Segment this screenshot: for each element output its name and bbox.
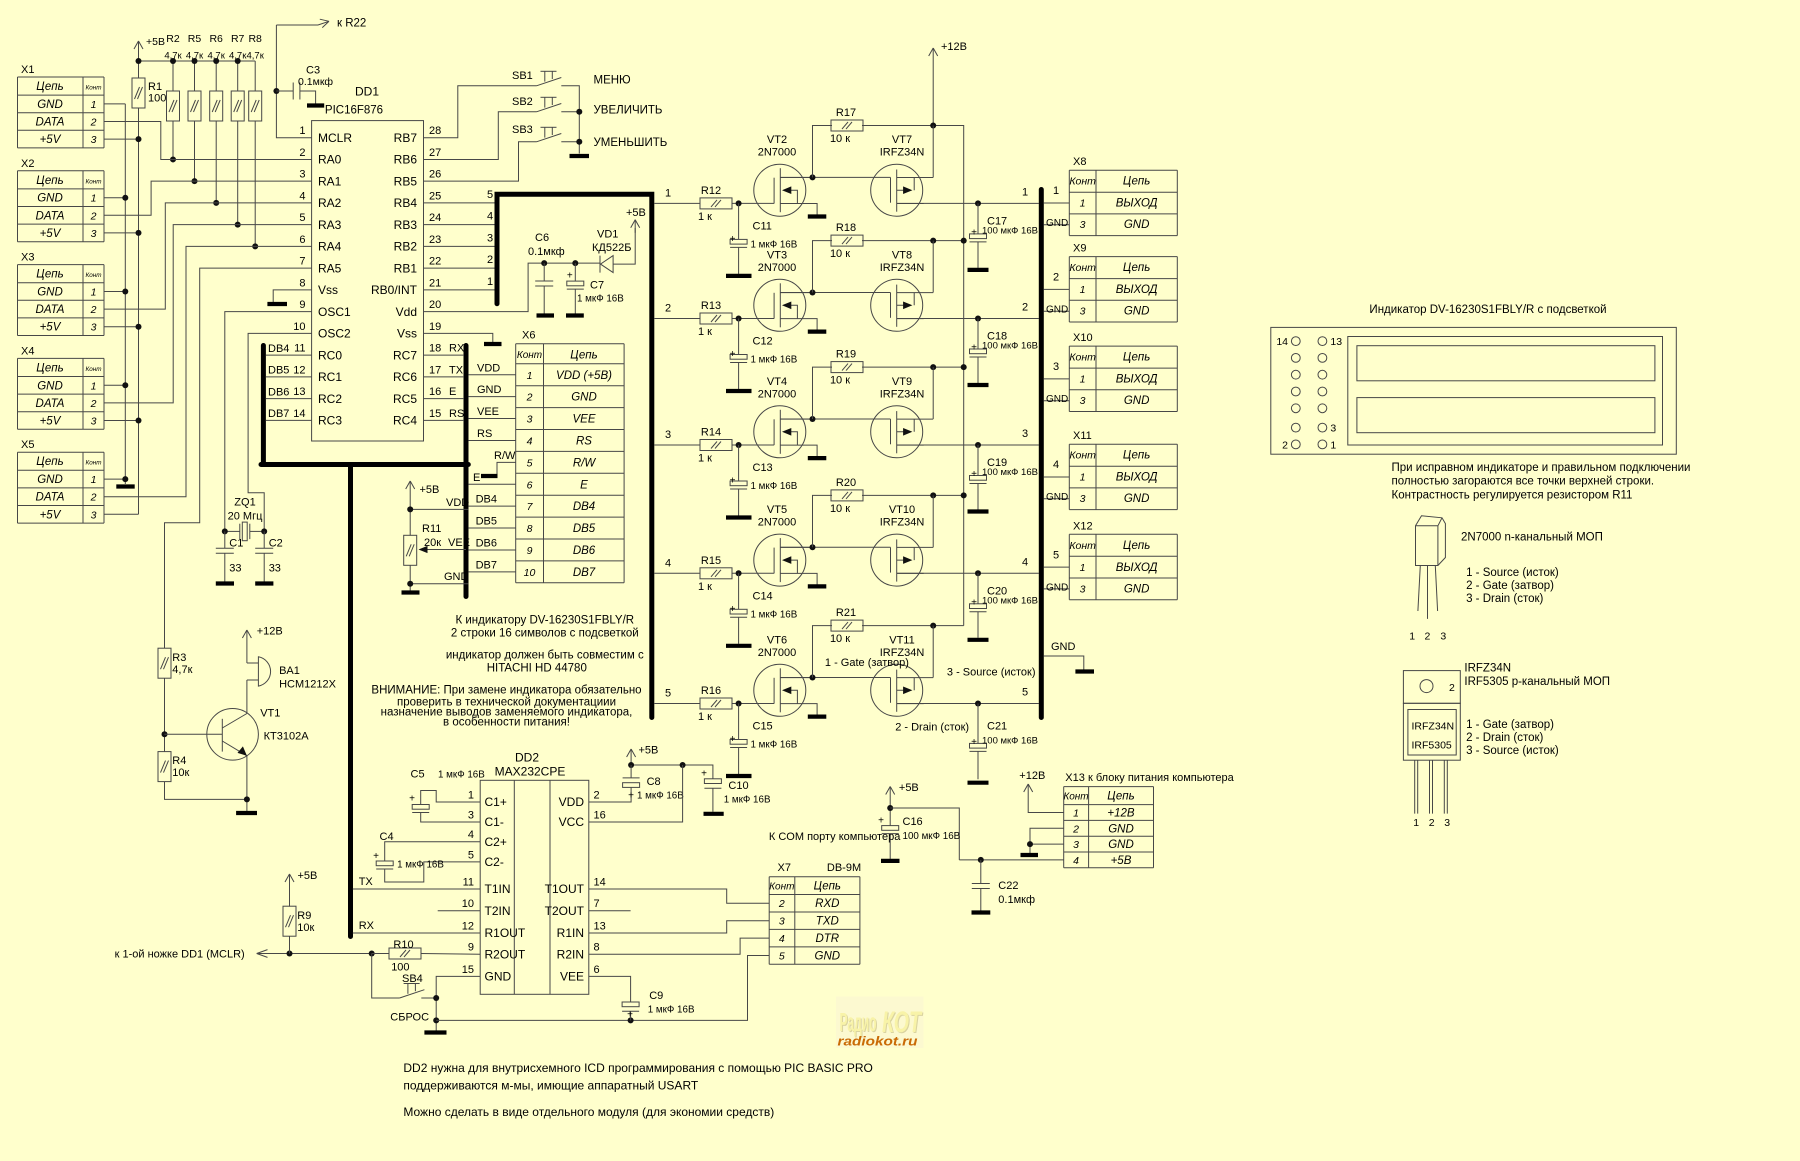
svg-text:9: 9 — [468, 942, 474, 954]
svg-text:DB-9M: DB-9M — [827, 862, 861, 874]
ground for C18 — [968, 383, 989, 387]
svg-text:R10: R10 — [393, 939, 413, 951]
transistor VT7 IRFZ34N — [871, 164, 934, 216]
svg-text:DB6: DB6 — [268, 386, 289, 398]
wire: MCLR net vertical to DD1 pin 1 — [276, 25, 311, 138]
svg-text:GND: GND — [37, 287, 63, 299]
svg-text:GND: GND — [1124, 306, 1150, 318]
svg-text:2 - Drain (сток): 2 - Drain (сток) — [895, 722, 969, 734]
svg-text:11: 11 — [294, 343, 305, 355]
svg-text:GND: GND — [1046, 492, 1068, 503]
svg-text:C9: C9 — [649, 990, 663, 1002]
svg-text:1 - Gate (затвор): 1 - Gate (затвор) — [1466, 719, 1554, 731]
svg-text:2N7000 n-канальный МОП: 2N7000 n-канальный МОП — [1461, 532, 1603, 544]
svg-text:E: E — [449, 386, 456, 398]
svg-text:Конт: Конт — [86, 366, 102, 373]
svg-text:C21: C21 — [987, 721, 1007, 733]
svg-text:GND: GND — [477, 384, 502, 396]
svg-text:2: 2 — [1022, 302, 1028, 314]
wire: DD1 pin 27 to SB2 — [424, 112, 537, 160]
svg-text:R18: R18 — [836, 222, 856, 234]
svg-text:R2IN: R2IN — [557, 947, 584, 961]
resistor R13 1 к — [700, 313, 732, 324]
svg-text:C2+: C2+ — [485, 835, 507, 849]
svg-text:Конт: Конт — [1069, 352, 1096, 364]
svg-text:RC6: RC6 — [393, 370, 417, 384]
power +5B arrow near C16 — [889, 787, 891, 801]
svg-text:T1IN: T1IN — [485, 882, 511, 896]
svg-text:R16: R16 — [701, 685, 721, 697]
svg-text:2: 2 — [1053, 272, 1059, 284]
wire: VT11 drain to output bus (signal 5) — [897, 703, 1039, 705]
svg-text:1: 1 — [1413, 817, 1419, 829]
ground for C20 — [968, 638, 989, 642]
svg-text:100: 100 — [391, 962, 409, 974]
capacitor C10 1 мкФ 16В — [704, 779, 721, 784]
svg-text:10 к: 10 к — [830, 375, 850, 387]
svg-text:+: + — [409, 794, 415, 805]
svg-text:DTR: DTR — [815, 933, 839, 945]
svg-text:0.1мкф: 0.1мкф — [298, 76, 333, 88]
wire: bundle to X6 row 2 (GND) — [468, 396, 515, 398]
power +5B arrow above C8 — [630, 749, 632, 763]
svg-text:1: 1 — [91, 380, 97, 392]
svg-text:1: 1 — [468, 790, 474, 802]
svg-text:+: + — [730, 476, 736, 487]
svg-text:+: + — [730, 234, 736, 245]
svg-text:R20: R20 — [836, 477, 856, 489]
resistor R4 10к — [158, 752, 171, 782]
svg-text:IRFZ34N: IRFZ34N — [880, 262, 925, 274]
svg-text:Конт: Конт — [517, 350, 542, 361]
power +5B arrow above R9 — [289, 874, 291, 889]
capacitor C19 100 мкФ 16В (output) — [977, 445, 979, 476]
svg-text:10к: 10к — [172, 767, 189, 779]
svg-text:1 - Gate (затвор): 1 - Gate (затвор) — [825, 657, 909, 669]
svg-text:VDD: VDD — [559, 795, 585, 809]
wire: VT1 emitter to ground — [246, 756, 248, 811]
svg-text:+5V: +5V — [40, 416, 62, 428]
svg-text:R4: R4 — [172, 755, 186, 767]
svg-text:Цепь: Цепь — [36, 175, 63, 187]
wire: X3 GND pin to GND bus — [104, 291, 125, 293]
svg-text:RX: RX — [359, 920, 375, 932]
svg-text:C1-: C1- — [485, 815, 504, 829]
wire: DD1 pin 18 (RX) to bundle — [424, 354, 465, 356]
ground for X13 — [1021, 853, 1039, 857]
ground for pin 19 — [484, 342, 502, 346]
transistor VT5 2N7000 — [754, 534, 827, 586]
svg-text:4,7к: 4,7к — [172, 664, 192, 676]
wire: VT6 drain to VT11 gate — [780, 677, 890, 679]
svg-text:МЕНЮ: МЕНЮ — [594, 75, 632, 87]
svg-text:Конт: Конт — [1069, 450, 1096, 462]
svg-text:R12: R12 — [701, 185, 721, 197]
resistor R18 10 к (pullup to +12V) — [813, 241, 833, 293]
transistor VT10 IRFZ34N — [871, 534, 934, 586]
svg-text:DB4: DB4 — [573, 501, 595, 513]
svg-text:C6: C6 — [535, 232, 549, 244]
svg-text:1 - Source (исток): 1 - Source (исток) — [1466, 567, 1559, 579]
svg-text:OSC1: OSC1 — [318, 305, 351, 319]
svg-text:Конт: Конт — [86, 178, 102, 185]
svg-text:Цепь: Цепь — [36, 456, 63, 468]
svg-text:VEE: VEE — [560, 970, 584, 984]
ground for C16 — [881, 859, 900, 863]
wire: bundle to X6 row 1 (VDD) — [468, 374, 515, 376]
svg-text:+5V: +5V — [40, 509, 62, 521]
indicator module outline — [1271, 327, 1677, 454]
svg-text:Конт: Конт — [1063, 792, 1088, 803]
svg-text:X10: X10 — [1073, 332, 1093, 344]
power +5B arrow above VD1 — [634, 220, 636, 233]
resistor R17 10 к (pullup to +12V) — [813, 126, 833, 178]
capacitor C8 1 мкФ 16В — [630, 765, 632, 778]
svg-text:GND: GND — [1046, 305, 1068, 316]
svg-text:3: 3 — [1022, 428, 1028, 440]
transistor VT8 IRFZ34N — [871, 279, 934, 331]
svg-text:10к: 10к — [297, 922, 314, 934]
package drawing IRFZ34N TO-220 — [1403, 671, 1460, 704]
wire: DD1 pin 9 OSC1 to crystal — [225, 312, 312, 532]
svg-text:ВЫХОД: ВЫХОД — [1116, 562, 1158, 574]
svg-text:2: 2 — [665, 303, 671, 315]
wire: VT1 collector to BA1 — [246, 680, 248, 714]
svg-text:SB3: SB3 — [512, 124, 533, 136]
svg-text:33: 33 — [229, 563, 241, 575]
ground for C13 — [726, 515, 752, 519]
wire: output bus GND stub to ground — [1044, 656, 1084, 670]
svg-text:+5В: +5В — [298, 870, 318, 882]
svg-text:VD1: VD1 — [597, 229, 618, 241]
svg-text:5: 5 — [665, 688, 671, 700]
power +12B arrow at X13 — [1027, 784, 1029, 797]
svg-text:DB7: DB7 — [573, 567, 596, 579]
svg-text:+: + — [730, 734, 736, 745]
svg-text:X5: X5 — [21, 439, 34, 451]
svg-text:индикатор должен быть совмести: индикатор должен быть совместим с — [446, 650, 644, 662]
svg-text:2: 2 — [594, 790, 600, 802]
svg-text:RS: RS — [576, 435, 592, 447]
IC DD1 PIC16F876 body — [312, 121, 424, 441]
svg-text:VDD (+5В): VDD (+5В) — [556, 370, 612, 382]
svg-text:+: + — [701, 769, 707, 780]
wire: DD1 pin 23 to LCD bus — [424, 245, 498, 247]
svg-text:VT6: VT6 — [767, 634, 787, 646]
svg-text:3 - Drain (сток): 3 - Drain (сток) — [1466, 593, 1543, 605]
svg-text:X7: X7 — [778, 862, 791, 874]
svg-text:ВЫХОД: ВЫХОД — [1116, 374, 1158, 386]
resistor R20 10 к (pullup to +12V) — [813, 495, 833, 547]
wire: R18 to +12V rail — [862, 240, 933, 242]
svg-text:100 мкФ 16В: 100 мкФ 16В — [982, 341, 1038, 352]
ground for C2 — [255, 581, 273, 585]
svg-text:4: 4 — [779, 933, 785, 945]
svg-text:При исправном индикаторе и пра: При исправном индикаторе и правильном по… — [1392, 462, 1691, 474]
wire: VT4 drain to VT9 gate — [780, 418, 890, 420]
resistor R3 4,7к — [158, 648, 171, 678]
svg-text:17: 17 — [429, 364, 441, 376]
wire: bus to X8 ВЫХОД — [1044, 202, 1070, 204]
svg-text:C16: C16 — [903, 816, 923, 828]
svg-text:2: 2 — [1425, 631, 1431, 643]
svg-text:GND: GND — [37, 474, 63, 486]
svg-text:13: 13 — [293, 386, 305, 398]
wire: X4 DATA to DD1 pin 5 (RA3) — [104, 225, 312, 403]
power +5B arrow above R11 — [409, 481, 411, 496]
connector X7 DB-9M table — [769, 862, 861, 964]
svg-text:GND: GND — [444, 571, 469, 583]
wire: X2 GND pin to GND bus — [104, 197, 125, 199]
svg-text:X12: X12 — [1073, 520, 1093, 532]
svg-text:R17: R17 — [836, 107, 856, 119]
svg-text:9: 9 — [527, 545, 533, 557]
svg-text:Цепь: Цепь — [1107, 791, 1134, 803]
svg-text:2: 2 — [778, 898, 785, 910]
svg-text:Конт: Конт — [86, 460, 102, 467]
svg-text:RC0: RC0 — [318, 348, 342, 362]
svg-text:3: 3 — [1330, 423, 1336, 435]
svg-text:1: 1 — [91, 193, 97, 205]
wire: DD1 pin 8 Vss to ground — [273, 290, 311, 302]
svg-text:RA4: RA4 — [318, 240, 342, 254]
svg-text:X9: X9 — [1073, 243, 1086, 255]
svg-text:+12В: +12В — [1107, 808, 1135, 820]
svg-text:15: 15 — [462, 964, 474, 976]
wire: R6 to DD1 pin 4 — [215, 121, 217, 203]
svg-text:T1OUT: T1OUT — [545, 882, 585, 896]
svg-text:R3: R3 — [172, 652, 186, 664]
wire: bus to X9 ВЫХОД — [1044, 288, 1070, 290]
svg-text:DB5: DB5 — [476, 516, 497, 528]
wire: signal 3 from bus to R14 — [654, 444, 700, 446]
connector X1 table — [18, 64, 105, 148]
wire: R10 to DD2 R2OUT — [421, 953, 480, 956]
connector X4 table — [18, 345, 105, 429]
svg-text:radiokot.ru: radiokot.ru — [838, 1035, 918, 1049]
svg-text:GND: GND — [1108, 823, 1134, 835]
svg-text:SB4: SB4 — [402, 973, 423, 985]
svg-text:3 - Source (исток): 3 - Source (исток) — [1466, 745, 1559, 757]
svg-text:4,7к: 4,7к — [247, 51, 265, 62]
svg-text:2: 2 — [90, 492, 97, 504]
svg-text:24: 24 — [429, 212, 441, 224]
svg-text:1: 1 — [91, 99, 97, 111]
wire: VT7 drain to output bus (signal 1) — [897, 202, 1039, 204]
wire: R14 to VT4 gate — [732, 444, 774, 446]
svg-text:+: + — [878, 816, 884, 827]
svg-text:3: 3 — [1444, 817, 1450, 829]
wire: X1 GND pin to GND bus — [104, 103, 125, 105]
svg-text:8: 8 — [594, 942, 600, 954]
capacitor C21 100 мкФ 16В (output) — [977, 704, 979, 744]
ground for C17 — [968, 268, 989, 272]
transistor VT3 2N7000 — [754, 279, 827, 331]
wire: signal 2 from bus to R13 — [654, 318, 700, 320]
svg-text:2: 2 — [1282, 439, 1288, 451]
svg-text:TXD: TXD — [816, 916, 839, 928]
svg-text:1: 1 — [665, 187, 671, 199]
svg-text:C1+: C1+ — [485, 795, 507, 809]
svg-text:X8: X8 — [1073, 156, 1086, 168]
wire: X2 +5V pin to +5V bus — [104, 232, 139, 234]
svg-text:28: 28 — [429, 125, 441, 137]
svg-text:X1: X1 — [21, 64, 34, 76]
svg-text:14: 14 — [293, 408, 305, 420]
svg-text:R9: R9 — [297, 910, 311, 922]
ground for C21 — [968, 781, 989, 785]
svg-text:C11: C11 — [753, 220, 772, 232]
svg-text:R21: R21 — [836, 607, 856, 619]
DD1 pin labels and numbers — [293, 125, 441, 427]
ground for C19 — [968, 509, 989, 513]
svg-text:1 мкФ 16В: 1 мкФ 16В — [397, 860, 444, 871]
svg-text:VT7: VT7 — [892, 134, 912, 146]
svg-text:DB7: DB7 — [476, 559, 497, 571]
svg-text:RC2: RC2 — [318, 392, 342, 406]
wire: bus to X8 GND — [1044, 224, 1070, 226]
svg-text:ВНИМАНИЕ: При замене индикатор: ВНИМАНИЕ: При замене индикатора обязател… — [371, 685, 641, 697]
svg-text:к R22: к R22 — [337, 18, 366, 30]
wire: DD2 T2OUT stub — [589, 910, 631, 912]
svg-text:9: 9 — [299, 299, 305, 311]
resistor R16 1 к — [700, 698, 732, 709]
svg-text:IRFZ34N: IRFZ34N — [1464, 663, 1511, 675]
ground for output bus GND — [1075, 669, 1094, 673]
svg-text:IRFZ34N: IRFZ34N — [1412, 721, 1455, 733]
wire: DD2 R1IN to X7 TXD — [589, 921, 769, 933]
svg-text:1 к: 1 к — [698, 211, 712, 223]
wire: к R22 arrow — [276, 24, 318, 26]
buzzer BA1 HCM1212X — [247, 662, 259, 664]
resistor R19 10 к (pullup to +12V) — [813, 367, 833, 419]
wire: +5V line to X13 row 4 — [959, 859, 1063, 861]
wire: X2 DATA to DD1 pin 3 (RA1) — [104, 181, 312, 215]
svg-text:8: 8 — [299, 277, 305, 289]
svg-text:2: 2 — [90, 210, 97, 222]
package drawing 2N7000 TO-92 — [1416, 516, 1446, 566]
svg-text:E: E — [580, 479, 588, 491]
svg-text:3: 3 — [1080, 306, 1086, 318]
svg-text:Vss: Vss — [397, 327, 417, 341]
output bundle bus — [1039, 190, 1044, 718]
svg-text:10: 10 — [524, 567, 536, 579]
ground for C1 — [216, 581, 234, 585]
LCD signal bundle bus (top) — [497, 194, 652, 717]
svg-text:VT2: VT2 — [767, 134, 787, 146]
svg-text:R/W: R/W — [494, 450, 516, 462]
svg-text:4: 4 — [1053, 459, 1059, 471]
svg-text:1 мкФ 16В: 1 мкФ 16В — [751, 481, 798, 492]
wire: R7 to DD1 pin 5 — [237, 121, 239, 225]
svg-text:1 мкФ 16В: 1 мкФ 16В — [637, 791, 684, 802]
transistor VT1 КТ3102А — [207, 709, 259, 761]
svg-text:1: 1 — [1409, 631, 1415, 643]
svg-text:7: 7 — [299, 256, 305, 268]
svg-text:8: 8 — [527, 523, 533, 535]
svg-text:C22: C22 — [998, 880, 1018, 892]
svg-text:Конт: Конт — [86, 85, 102, 92]
power +12B arrow above BA1 — [246, 630, 248, 646]
capacitor C12 1 мкФ 16В (gate) — [738, 319, 740, 355]
svg-text:20 Мгц: 20 Мгц — [228, 511, 263, 523]
svg-text:ВЫХОД: ВЫХОД — [1116, 284, 1158, 296]
svg-text:КД522Б: КД522Б — [592, 242, 631, 254]
svg-text:+: + — [627, 1010, 633, 1021]
svg-text:2 строки 16 символов с подсвет: 2 строки 16 символов с подсветкой — [451, 628, 639, 640]
svg-text:3 - Source (исток): 3 - Source (исток) — [947, 667, 1036, 679]
svg-text:1: 1 — [1022, 186, 1028, 198]
svg-text:SB1: SB1 — [512, 70, 533, 82]
wire: signal 4 from bus to R15 — [654, 572, 700, 574]
wire: bundle to X6 row 4 (RS) — [468, 439, 515, 441]
svg-text:+: + — [373, 851, 379, 862]
svg-text:RB1: RB1 — [394, 261, 418, 275]
ground for C15 — [726, 774, 752, 778]
wire: bus to X12 ВЫХОД — [1044, 566, 1070, 568]
svg-text:Цепь: Цепь — [36, 269, 63, 281]
resistor R10 100 — [372, 953, 389, 955]
svg-text:4: 4 — [527, 435, 533, 447]
wire: signal 5 from bus to R16 — [654, 703, 700, 705]
wire: +12V drop to VT8 source — [932, 241, 934, 293]
wire: DD1 pin 10 OSC2 to crystal — [248, 333, 312, 531]
svg-text:VT8: VT8 — [892, 249, 912, 261]
svg-text:DB6: DB6 — [476, 537, 497, 549]
svg-text:RB2: RB2 — [394, 240, 418, 254]
transistor VT4 2N7000 — [754, 406, 827, 458]
button SB4 СБРОС — [372, 954, 400, 999]
svg-text:GND: GND — [1124, 395, 1150, 407]
svg-text:IRF5305: IRF5305 — [1412, 740, 1452, 752]
svg-text:К COM порту компьютера: К COM порту компьютера — [769, 831, 901, 843]
svg-text:Цепь: Цепь — [1123, 540, 1150, 552]
wire: R8 to DD1 pin 6 — [254, 121, 256, 246]
svg-text:RC7: RC7 — [393, 348, 417, 362]
svg-text:0.1мкф: 0.1мкф — [528, 246, 565, 258]
svg-text:3: 3 — [91, 228, 97, 240]
wire: R17 to +12V rail — [862, 125, 933, 127]
svg-text:R11: R11 — [422, 523, 441, 535]
svg-text:X3: X3 — [21, 252, 34, 264]
wire: +12V drop to VT9 source — [932, 367, 934, 419]
indicator display area — [1348, 337, 1663, 446]
wire: DD1 pin 20 Vdd to decoupling node — [424, 263, 601, 312]
capacitor C6 0.1мкф — [543, 263, 545, 281]
svg-text:DATA: DATA — [36, 304, 65, 316]
wire: R16 to VT6 gate — [732, 703, 774, 705]
svg-text:4: 4 — [1073, 855, 1079, 867]
connector X9 table — [1069, 243, 1177, 322]
ground for buttons — [570, 154, 590, 158]
button SB2 УВЕЛИЧИТЬ — [537, 104, 562, 112]
wire: bundle to X6 row 7 (DB4) — [468, 505, 515, 507]
svg-text:VEE: VEE — [477, 406, 499, 418]
connector X12 table — [1069, 520, 1177, 599]
svg-text:1 мкФ 16В: 1 мкФ 16В — [577, 294, 624, 305]
svg-text:RX: RX — [449, 343, 465, 355]
svg-text:+5В: +5В — [420, 484, 440, 496]
svg-text:1: 1 — [487, 276, 493, 288]
svg-text:GND: GND — [1046, 582, 1068, 593]
svg-text:GND: GND — [1108, 839, 1134, 851]
crystal ZQ1 20 Мгц — [225, 530, 240, 532]
svg-text:C5: C5 — [411, 769, 425, 781]
svg-text:+: + — [971, 227, 977, 238]
svg-text:+: + — [730, 349, 736, 360]
svg-text:RB5: RB5 — [394, 174, 418, 188]
wire: DD1 pin 17 (TX) to bundle — [424, 376, 465, 378]
